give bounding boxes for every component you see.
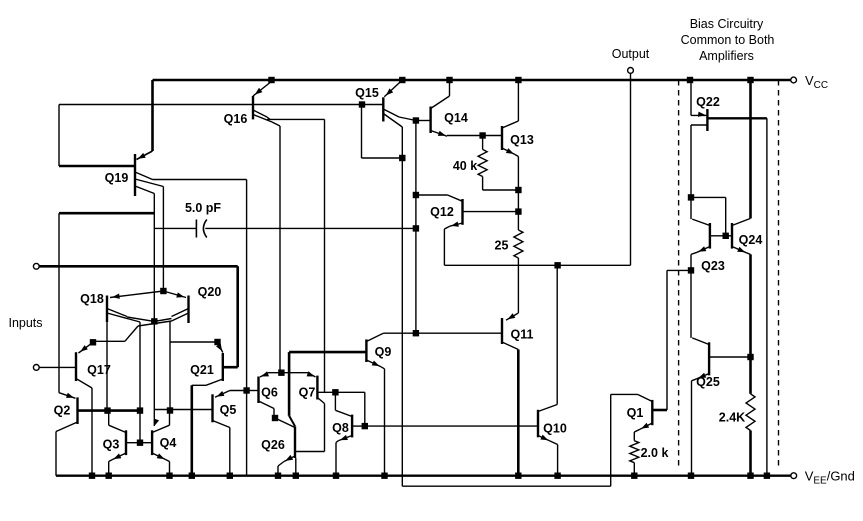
- svg-text:Q19: Q19: [105, 171, 129, 185]
- svg-text:Q15: Q15: [355, 86, 379, 100]
- svg-text:Q10: Q10: [543, 422, 567, 436]
- svg-text:Q9: Q9: [375, 345, 392, 359]
- svg-text:Q5: Q5: [220, 403, 237, 417]
- svg-text:Amplifiers: Amplifiers: [699, 49, 754, 63]
- svg-text:25: 25: [495, 239, 509, 253]
- svg-text:Output: Output: [612, 47, 650, 61]
- svg-text:Q23: Q23: [701, 259, 725, 273]
- svg-text:Q21: Q21: [190, 363, 214, 377]
- svg-text:Bias Circuitry: Bias Circuitry: [690, 17, 764, 31]
- svg-text:Q6: Q6: [261, 386, 278, 400]
- svg-text:Q14: Q14: [444, 111, 468, 125]
- svg-text:2.4K: 2.4K: [719, 411, 745, 425]
- svg-text:Q24: Q24: [739, 233, 763, 247]
- svg-text:Q16: Q16: [224, 112, 248, 126]
- svg-text:Q22: Q22: [696, 95, 720, 109]
- svg-text:Q25: Q25: [696, 375, 720, 389]
- svg-text:Q13: Q13: [510, 133, 534, 147]
- svg-text:Q8: Q8: [332, 421, 349, 435]
- svg-text:Q11: Q11: [511, 328, 534, 342]
- svg-text:Common to Both: Common to Both: [681, 33, 775, 47]
- svg-text:Q1: Q1: [627, 406, 644, 420]
- svg-text:Q3: Q3: [103, 438, 120, 452]
- svg-text:Q7: Q7: [299, 386, 316, 400]
- svg-text:Inputs: Inputs: [8, 316, 42, 330]
- svg-text:40 k: 40 k: [453, 159, 477, 173]
- svg-text:2.0 k: 2.0 k: [641, 446, 669, 460]
- svg-text:Q17: Q17: [87, 363, 111, 377]
- svg-text:5.0 pF: 5.0 pF: [185, 201, 221, 215]
- svg-text:Q26: Q26: [261, 438, 285, 452]
- svg-text:Q20: Q20: [198, 285, 222, 299]
- svg-text:Q4: Q4: [160, 436, 177, 450]
- svg-text:Q12: Q12: [430, 205, 454, 219]
- svg-text:Q2: Q2: [54, 404, 71, 418]
- svg-text:Q18: Q18: [80, 292, 104, 306]
